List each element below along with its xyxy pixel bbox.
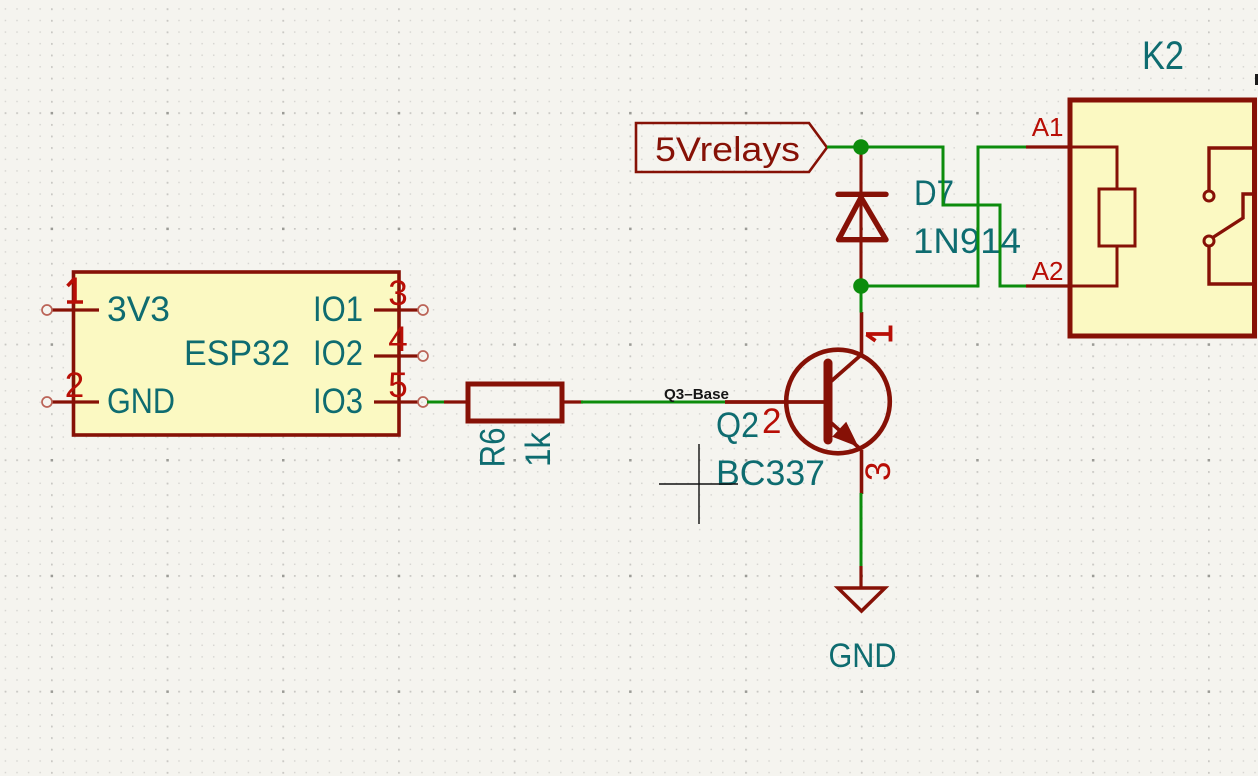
svg-text:BC337: BC337 <box>716 454 825 493</box>
wire resistor to Q2 base <box>581 401 725 404</box>
svg-text:4: 4 <box>388 320 407 359</box>
IC U1 ESP32 body <box>74 272 400 435</box>
svg-text:ESP32: ESP32 <box>184 334 290 373</box>
K2 pin A2 <box>1026 256 1072 286</box>
svg-text:K2: K2 <box>1142 34 1184 78</box>
wire 5Vrelays to junction <box>827 146 861 149</box>
Q2 pin number 3 <box>859 462 898 481</box>
svg-text:GND: GND <box>107 382 175 421</box>
wire Q2 emitter to GND <box>860 493 863 567</box>
Q2 reference <box>716 406 759 445</box>
svg-text:3: 3 <box>859 462 898 481</box>
power label 5Vrelays <box>636 123 827 172</box>
svg-text:A2: A2 <box>1032 256 1064 286</box>
pin 5 IO3 <box>313 366 428 421</box>
K2 pin A1 <box>1026 112 1072 147</box>
resistor R6 <box>444 384 583 468</box>
wire junction to Q2 collector <box>860 286 863 313</box>
svg-text:2: 2 <box>762 402 781 441</box>
svg-text:1N914: 1N914 <box>913 222 1021 261</box>
pin 3 IO1 <box>313 274 428 329</box>
svg-text:5: 5 <box>388 366 407 405</box>
svg-text:1k: 1k <box>519 432 558 467</box>
svg-text:2: 2 <box>65 366 84 405</box>
K2 coil <box>1072 147 1135 286</box>
net label Q3-Base <box>664 386 729 403</box>
cursor crosshair <box>659 444 738 524</box>
pin 4 IO2 <box>313 320 428 373</box>
svg-text:3V3: 3V3 <box>107 290 170 329</box>
Q2 pin number 1 <box>866 326 891 342</box>
svg-text:3: 3 <box>388 274 407 313</box>
svg-text:IO3: IO3 <box>313 382 363 421</box>
svg-text:IO2: IO2 <box>313 334 363 373</box>
wire IO3 to resistor <box>427 401 446 404</box>
svg-text:GND: GND <box>829 637 897 675</box>
junction node bottom <box>853 278 869 294</box>
Q2 pin number 2 <box>762 402 781 441</box>
K2 switch contacts <box>1204 148 1254 284</box>
Q2 value BC337 <box>716 454 825 493</box>
wire top junction to relay A2 (crossing) <box>861 147 1026 286</box>
transistor Q2 <box>725 312 890 494</box>
svg-text:D7: D7 <box>914 174 954 213</box>
svg-text:A1: A1 <box>1032 112 1064 142</box>
pin 2 GND <box>42 366 175 421</box>
relay K2 body <box>1070 34 1255 336</box>
ground symbol GND <box>829 566 897 675</box>
clipped text at right edge <box>1255 74 1258 85</box>
junction node top <box>853 139 869 155</box>
svg-text:Q3–Base: Q3–Base <box>664 386 729 403</box>
diode D7 <box>838 147 1021 286</box>
svg-text:IO1: IO1 <box>313 290 363 329</box>
wire bottom junction to relay A1 (crossing) <box>861 147 1026 286</box>
pin 1 3V3 <box>42 278 170 330</box>
svg-text:Q2: Q2 <box>716 406 759 445</box>
svg-text:R6: R6 <box>474 428 513 468</box>
svg-text:5Vrelays: 5Vrelays <box>655 131 800 169</box>
